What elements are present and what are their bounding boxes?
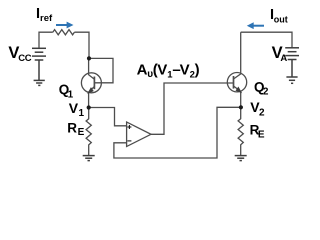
node V2 dot [239, 105, 243, 109]
node V1 dot [87, 105, 91, 109]
svg-text:): ) [195, 62, 200, 79]
battery VA [285, 48, 299, 77]
arrow Iref (blue, pointing right) [56, 22, 74, 29]
svg-text:1: 1 [68, 89, 74, 100]
resistor RE right [238, 107, 243, 155]
ground below RE right [235, 156, 247, 161]
emitter arrowhead Q1 [87, 87, 94, 95]
battery VCC [32, 48, 46, 80]
svg-text:E: E [258, 129, 265, 140]
wire feedback minus input [114, 107, 241, 158]
resistor RE left [86, 108, 91, 156]
wire collector Q1 [89, 58, 95, 79]
svg-text:V: V [69, 100, 79, 116]
svg-text:A: A [280, 53, 287, 64]
emitter arrowhead Q2 [235, 86, 242, 94]
transistor Q2 emitter with arrow [234, 86, 241, 107]
wire base loop Q1 (collector-base tie) [89, 58, 113, 82]
wire op-amp output to Q2 base [151, 83, 234, 134]
ground below VA battery [286, 77, 297, 83]
transistor Q2 circle [227, 73, 246, 92]
wire V1 node to op-amp + input [89, 108, 127, 126]
svg-text:ref: ref [40, 13, 53, 24]
arrow Iout (blue, pointing left) [247, 22, 264, 29]
svg-text:2: 2 [263, 87, 269, 98]
wire top-left from Vcc to resistor [39, 32, 53, 48]
wire top-right to VA battery [241, 32, 292, 48]
svg-text:R: R [67, 120, 77, 135]
ground below RE left [83, 156, 95, 161]
op-amp plus marker [127, 125, 131, 129]
transistor Q1 circle [81, 73, 101, 93]
op-amp U1 triangle [127, 122, 151, 147]
svg-text:1: 1 [79, 108, 85, 119]
wire resistor to junction and down to Q1 collector [74, 32, 89, 58]
svg-text:V: V [157, 62, 167, 79]
svg-text:V: V [180, 62, 190, 79]
ground below VCC battery [34, 80, 45, 85]
wire collector Q2 [234, 32, 241, 79]
transistor Q1 base bar [93, 77, 95, 90]
svg-text:CC: CC [18, 53, 32, 64]
svg-text:out: out [274, 14, 288, 24]
op-amp minus marker [127, 140, 131, 142]
svg-text:A: A [137, 62, 148, 79]
transistor Q1 emitter with arrow [89, 86, 95, 107]
transistor Q2 base bar [233, 76, 235, 89]
svg-text:2: 2 [259, 108, 265, 119]
svg-text:E: E [78, 127, 85, 138]
resistor Rref (top left zigzag) [53, 30, 75, 35]
node junction dot (Q1 collector-base tie) [87, 56, 91, 60]
